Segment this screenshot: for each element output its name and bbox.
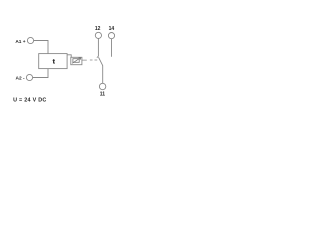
relay K1 box (71, 57, 82, 64)
svg-text:A2 -: A2 - (16, 76, 25, 82)
svg-text:t: t (53, 59, 55, 65)
svg-text:U = 24 V DC: U = 24 V DC (13, 98, 47, 104)
svg-text:A1 +: A1 + (15, 39, 25, 45)
svg-text:14: 14 (109, 26, 115, 32)
wire arm to terminal 11 (102, 65, 104, 83)
terminal 12 (95, 32, 101, 38)
terminal A2 (26, 74, 32, 80)
NC contact foot (97, 56, 99, 58)
NO contact line 14 (111, 39, 113, 57)
terminal A1 (27, 37, 33, 43)
relay arrow (72, 58, 81, 64)
mechanical link (dashed) (82, 59, 97, 61)
wire A1 to coil box (34, 41, 48, 54)
wire A2 to coil box (33, 69, 48, 78)
svg-text:12: 12 (95, 26, 101, 32)
NC contact line 12 (97, 39, 99, 57)
background (0, 0, 128, 128)
wire box to relay (67, 55, 71, 58)
input module box U1 (39, 54, 67, 69)
svg-text:11: 11 (100, 92, 106, 98)
relay coil symbol (73, 59, 79, 63)
terminal 11 (99, 83, 105, 89)
terminal 14 (108, 33, 114, 39)
contact arm (99, 57, 103, 65)
